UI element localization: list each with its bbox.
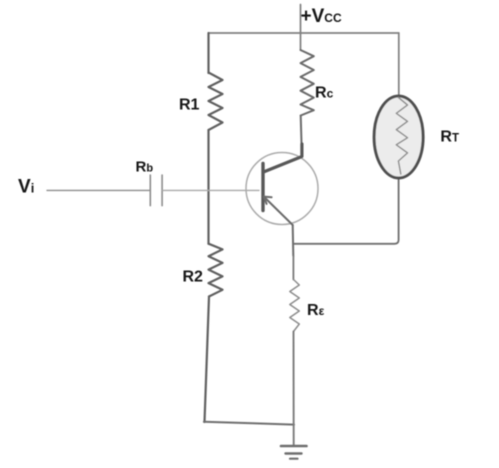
wire: left vertical from top rail to R1 [207,33,209,73]
svg-text:Rc: Rc [315,85,334,102]
svg-text:R2: R2 [183,269,204,286]
wire: input from Vi to capacitor [47,189,150,191]
wire: emitter stub down to node [292,225,295,256]
svg-text:Rε: Rε [307,302,325,319]
thermistor RT inner zigzag [396,98,407,175]
wire: RE bottom to ground [293,332,295,447]
transistor Q1 circle [246,153,318,225]
svg-text:Rb: Rb [136,159,154,176]
svg-text:R1: R1 [179,97,200,114]
resistor R1 [209,73,223,131]
capacitor Rb plate left [149,175,151,206]
svg-text:Vi: Vi [18,177,34,198]
resistor RE [290,280,300,332]
transistor Q1 emitter arrowhead [264,197,272,204]
node: emitter junction / wire to RT bottom [293,178,398,244]
resistor R2 [209,244,223,297]
transistor Q1 emitter lead [264,197,293,225]
transistor Q1 collector lead [264,144,302,172]
wire: top rail from R1 top to right branch [209,32,399,34]
wire: base lead from capacitor to transistor [163,189,260,191]
resistor Rc [301,50,314,150]
wire: left vertical between R1 and R2 [207,130,209,244]
svg-text:+VCC: +VCC [301,6,342,27]
power +VCC stub [300,5,302,51]
thermistor RT body [374,96,423,178]
svg-text:RT: RT [440,129,459,146]
wire: bottom rail [204,422,294,425]
wire: right vertical from top rail to RT [398,33,400,97]
transistor Q1 base bar [261,164,264,211]
wire: emitter node down to RE [292,256,294,280]
capacitor Rb plate right [161,175,163,206]
wire: Rc to collector [301,116,302,151]
wire: left vertical from R2 to bottom rail [205,297,210,423]
ground [281,446,307,459]
